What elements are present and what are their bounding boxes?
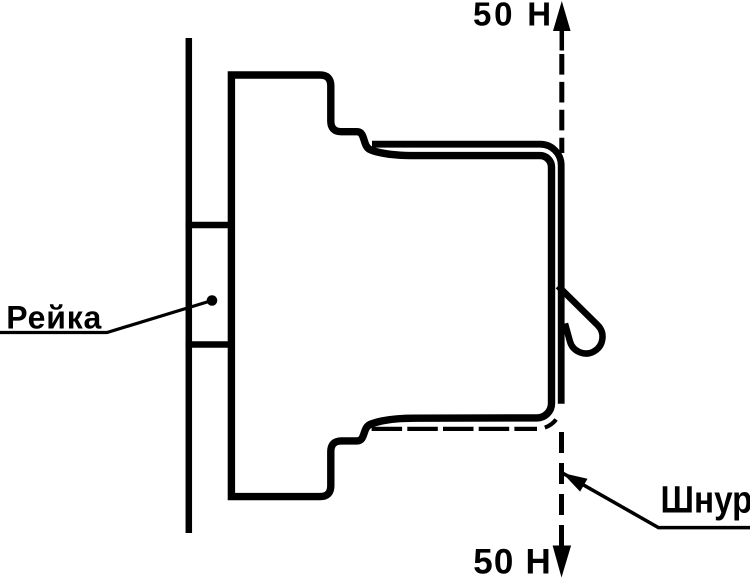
cord: hidden corner arc (dashed)	[537, 405, 561, 429]
rail (DIN rail) vertical bar	[186, 38, 193, 533]
force arrow down (50 N) head	[553, 546, 572, 578]
leader line for Рейка label	[0, 301, 212, 333]
leader dot for Рейка	[207, 295, 218, 306]
force arrow up (50 N) head	[553, 1, 571, 31]
svg-text:Шнур: Шнур	[661, 480, 750, 522]
svg-text:50 Н: 50 Н	[473, 0, 554, 33]
svg-text:Рейка: Рейка	[6, 299, 102, 335]
leader line for Шнур label	[563, 473, 750, 527]
device outline	[231, 75, 551, 497]
force arrow up (50 N) tail	[560, 29, 565, 51]
cord dashed extension downward	[559, 432, 564, 546]
cord loop knot on right side	[558, 286, 602, 353]
cord: hidden run under bottom edge (dashed horizontal)	[372, 427, 537, 431]
rail lower tab	[186, 341, 232, 348]
svg-text:50 Н: 50 Н	[473, 542, 552, 578]
cord: visible run along top edge and right side	[372, 144, 561, 404]
cord dashed extension upward	[559, 54, 564, 153]
rail upper tab	[186, 222, 232, 229]
leader arrowhead for Шнур	[563, 473, 588, 492]
